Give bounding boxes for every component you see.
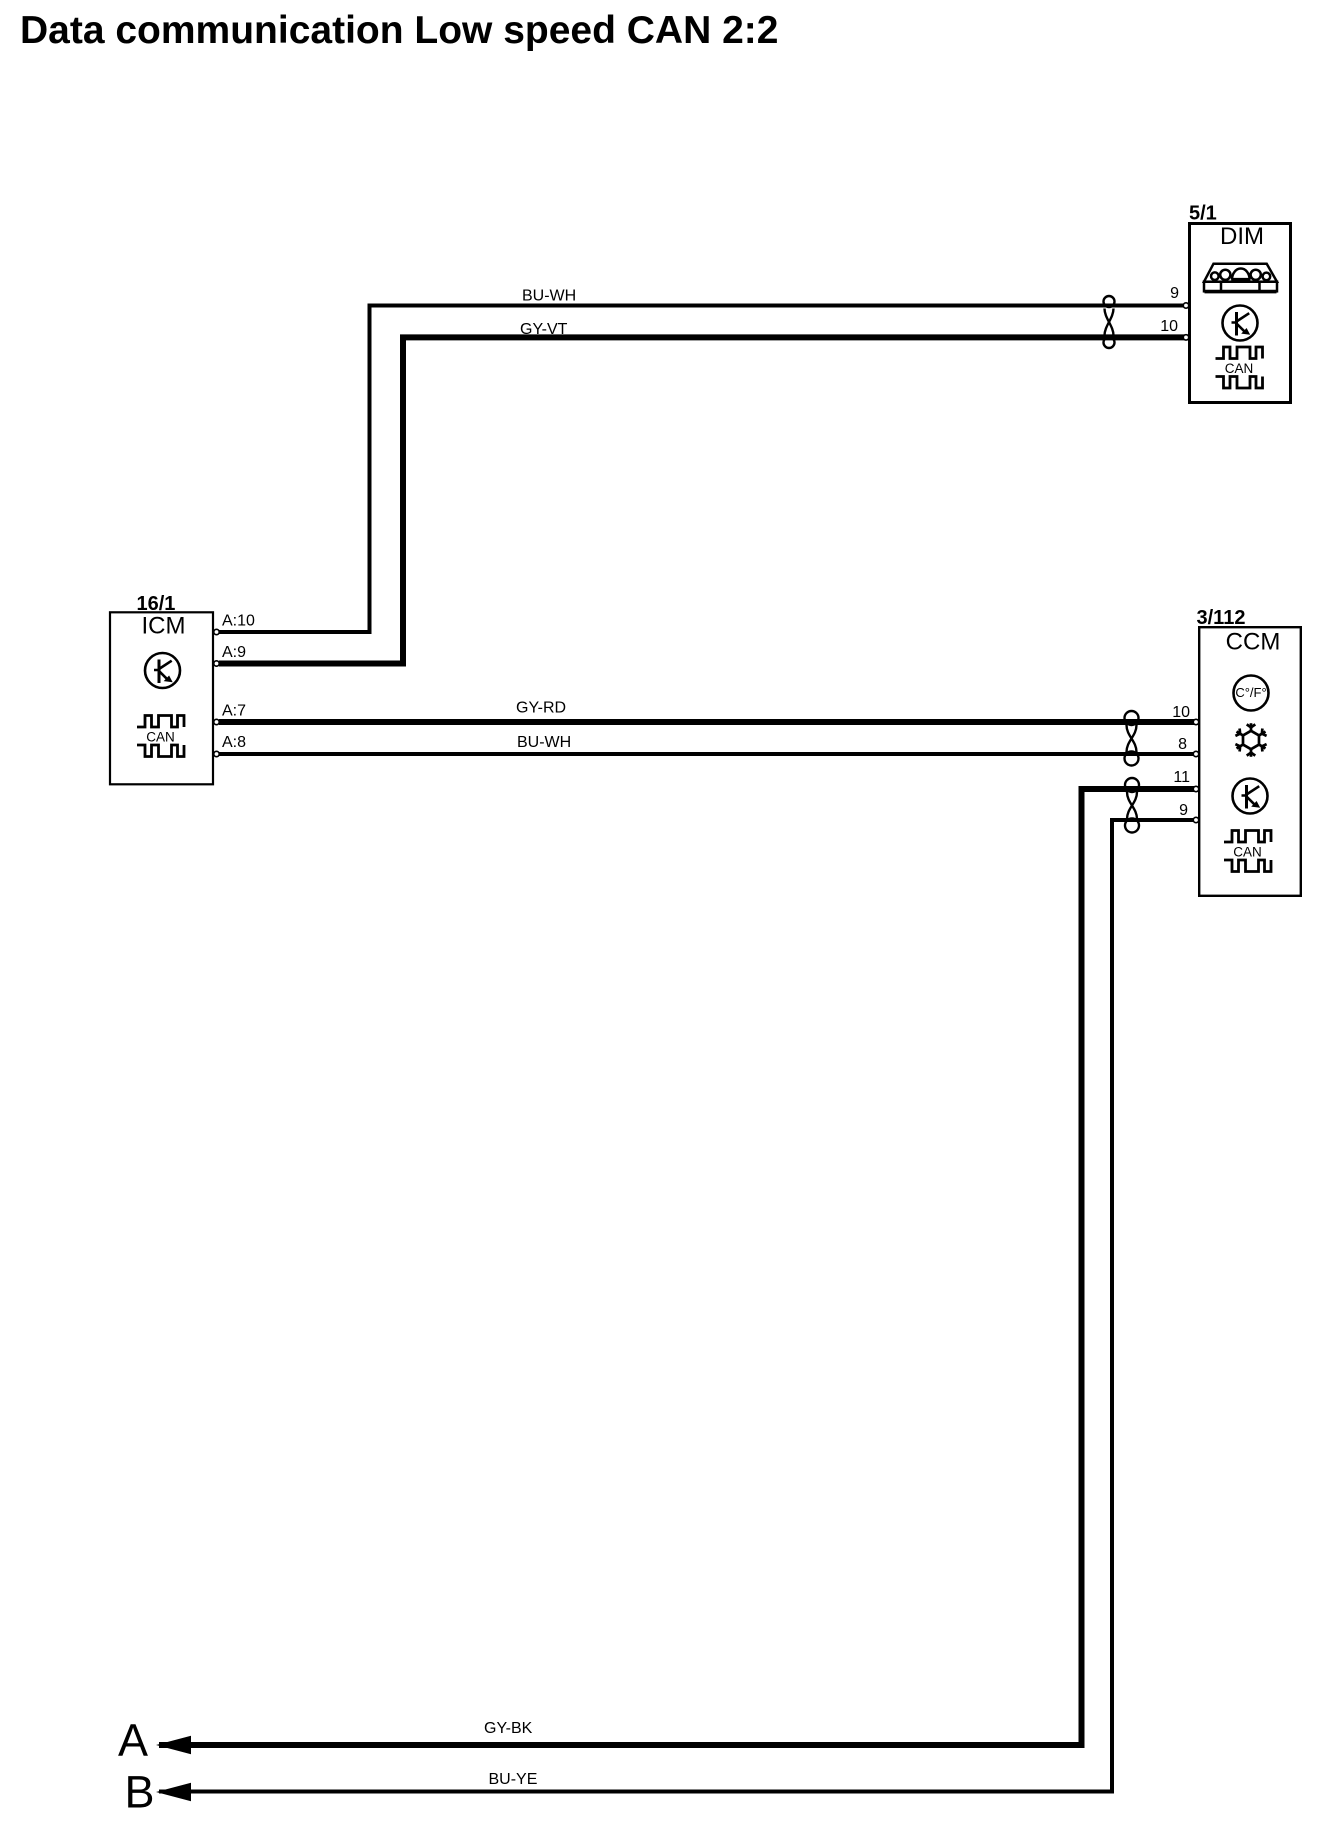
- box ICM: [110, 612, 213, 784]
- box CCM: [1199, 627, 1301, 896]
- svg-text:9: 9: [1170, 285, 1179, 302]
- svg-text:11: 11: [1173, 769, 1190, 786]
- wire BU-WH (ICM A:10 to DIM 9), thin: [219, 306, 1188, 633]
- twisted pair symbol at DIM pins 9/10: [1104, 296, 1115, 348]
- svg-text:5/1: 5/1: [1189, 203, 1217, 225]
- wire BU-YE (CCM 9 to arrow B), thin: [159, 820, 1198, 1792]
- instrument cluster icon: [1204, 264, 1277, 292]
- svg-text:BU-WH: BU-WH: [522, 288, 576, 305]
- wire GY-BK (CCM 11 to arrow A), thick: [159, 789, 1198, 1745]
- svg-text:8: 8: [1178, 736, 1187, 753]
- circled K (DIM): [1223, 306, 1258, 341]
- connector 5/1 DIM: [1189, 203, 1291, 403]
- svg-text:3/112: 3/112: [1197, 607, 1246, 629]
- svg-text:Data communication Low speed C: Data communication Low speed CAN 2:2: [20, 9, 778, 52]
- twisted pair symbol at CCM pins 11/9: [1125, 778, 1139, 833]
- svg-text:GY-BK: GY-BK: [484, 1720, 533, 1737]
- C/F temperature icon: [1234, 676, 1269, 711]
- svg-text:DIM: DIM: [1220, 223, 1264, 250]
- wire BU-WH (ICM A:8 to CCM 8), thin: [219, 752, 1198, 756]
- circled K (CCM): [1233, 779, 1268, 814]
- svg-text:A:8: A:8: [222, 734, 246, 751]
- svg-text:GY-RD: GY-RD: [516, 699, 566, 716]
- svg-text:9: 9: [1179, 802, 1188, 819]
- svg-text:BU-YE: BU-YE: [489, 1771, 538, 1788]
- connector 3/112 CCM: [1197, 607, 1301, 896]
- arrowhead A: [156, 1736, 191, 1754]
- svg-text:GY-VT: GY-VT: [520, 321, 568, 338]
- svg-text:10: 10: [1172, 704, 1190, 721]
- svg-text:A: A: [118, 1715, 148, 1766]
- wire GY-RD (ICM A:7 to CCM 10), thick: [219, 719, 1198, 725]
- connector 16/1 ICM: [110, 593, 213, 784]
- svg-text:CCM: CCM: [1226, 629, 1281, 656]
- svg-text:ICM: ICM: [142, 613, 186, 640]
- wire GY-VT (ICM A:9 to DIM 10), thick: [219, 337, 1188, 663]
- svg-text:BU-WH: BU-WH: [517, 734, 571, 751]
- svg-text:A:7: A:7: [222, 703, 246, 720]
- arrowhead B: [156, 1783, 191, 1801]
- CAN icon (ICM): [137, 716, 184, 757]
- CAN icon (DIM): [1216, 347, 1263, 388]
- twisted pair symbol at CCM pins 10/8: [1125, 711, 1139, 766]
- op-icon circled K (ICM): [145, 653, 180, 688]
- snowflake icon: [1235, 723, 1266, 757]
- svg-text:A:9: A:9: [222, 644, 246, 661]
- CAN icon (CCM): [1224, 831, 1271, 872]
- svg-text:A:10: A:10: [222, 613, 255, 630]
- box DIM: [1190, 224, 1291, 403]
- svg-text:C°/F°: C°/F°: [1235, 685, 1266, 700]
- svg-text:10: 10: [1160, 318, 1178, 335]
- svg-text:B: B: [125, 1767, 155, 1818]
